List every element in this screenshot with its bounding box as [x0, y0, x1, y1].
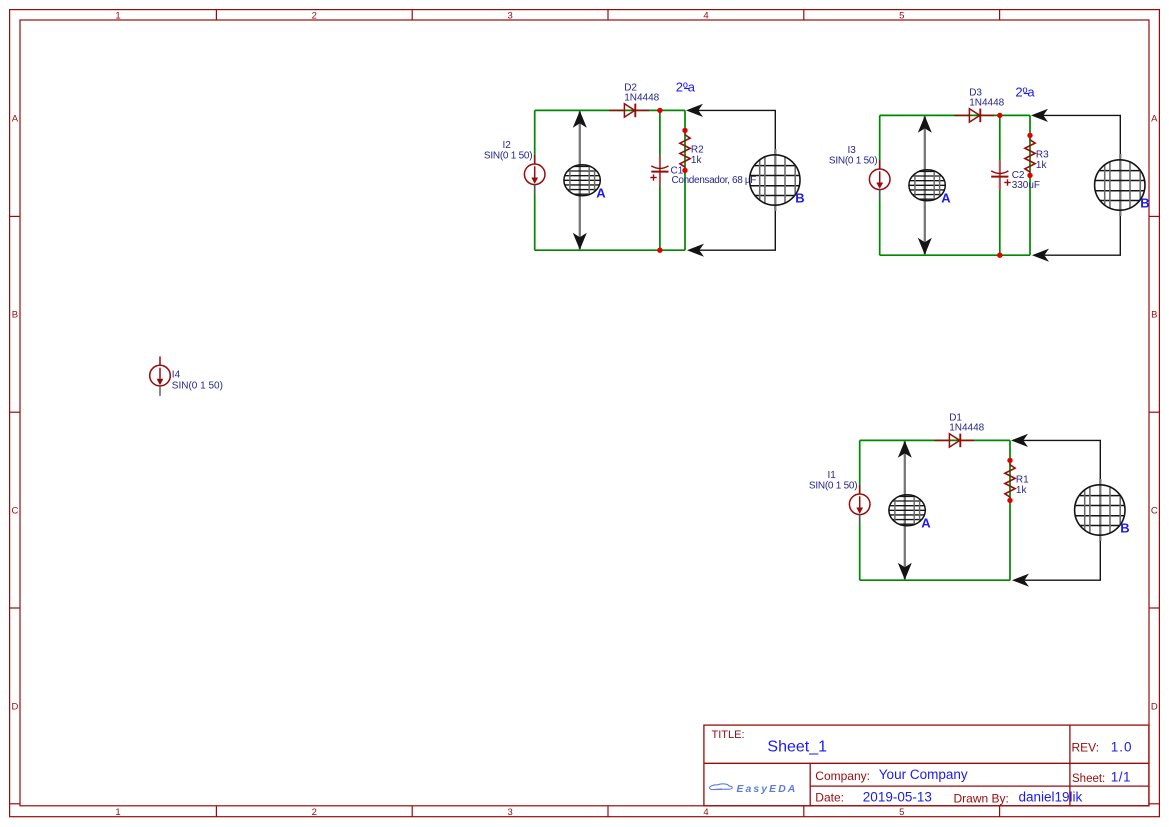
wire: [659, 110, 661, 250]
svg-text:2: 2: [312, 807, 317, 818]
junction dot c1 cap bottom: [657, 248, 662, 253]
capacitor C1: [659, 155, 661, 185]
wire: [880, 114, 1030, 116]
resistor R3 1k: [1029, 135, 1031, 139]
svg-text:5: 5: [899, 10, 904, 21]
svg-text:2ºa: 2ºa: [676, 79, 696, 94]
svg-text:3: 3: [507, 10, 512, 21]
svg-text:I1: I1: [827, 470, 836, 481]
wire: [535, 109, 685, 111]
wire: [534, 110, 536, 250]
probe c1B arrow top: [686, 104, 703, 117]
svg-text:A: A: [12, 113, 19, 124]
wire: [859, 440, 861, 580]
svg-text:REV:: REV:: [1072, 741, 1100, 755]
wire: [860, 579, 1010, 581]
diode D1 1N4448: [934, 434, 974, 448]
svg-text:1k: 1k: [1036, 160, 1048, 171]
svg-text:1.0: 1.0: [1111, 740, 1133, 755]
svg-text:A: A: [596, 186, 606, 201]
svg-text:1/1: 1/1: [1111, 770, 1131, 785]
svg-text:Date:: Date:: [815, 791, 844, 805]
svg-text:1N4448: 1N4448: [949, 423, 984, 434]
svg-text:SIN(0 1 50): SIN(0 1 50): [809, 481, 857, 492]
probe c2B wire loop: [1033, 115, 1120, 255]
current source I2: [524, 155, 545, 185]
junction dot c2 cap top: [997, 113, 1002, 118]
svg-text:TITLE:: TITLE:: [712, 729, 745, 741]
junction dot R3 pin1: [1027, 133, 1032, 138]
probe c1B stem: [774, 149, 776, 211]
probe c3A stem: [904, 441, 906, 579]
probe c2A arrow down: [918, 238, 932, 255]
svg-text:Your Company: Your Company: [879, 767, 968, 782]
svg-text:4: 4: [703, 10, 708, 21]
wire: [999, 115, 1001, 255]
current source I3: [869, 160, 890, 190]
probe c1A arrow down: [573, 233, 587, 250]
resistor R2 1k: [684, 130, 686, 134]
wire: [1029, 115, 1031, 255]
svg-text:I4: I4: [172, 369, 181, 380]
probe c2B stem: [1119, 154, 1121, 216]
probe c3B arrow bottom: [1012, 574, 1029, 587]
svg-text:EasyEDA: EasyEDA: [737, 784, 798, 795]
svg-text:Sheet:: Sheet:: [1072, 773, 1105, 785]
wire: [879, 115, 881, 255]
probe c3A body: [888, 494, 926, 526]
svg-text:2ºa: 2ºa: [1015, 84, 1035, 99]
capacitor C2: [999, 160, 1001, 190]
svg-text:Company:: Company:: [815, 769, 870, 783]
probe c1A stem: [579, 111, 581, 249]
svg-text:A: A: [921, 516, 931, 531]
column ticks top: [216, 10, 999, 20]
row ticks right: [1149, 216, 1159, 803]
svg-text:2: 2: [312, 10, 317, 21]
svg-text:Condensador, 68 µF: Condensador, 68 µF: [672, 175, 757, 186]
probe c2A body: [908, 169, 946, 201]
svg-text:Drawn By:: Drawn By:: [954, 791, 1009, 805]
wire: [684, 110, 686, 250]
svg-text:1k: 1k: [691, 155, 703, 166]
probe c1B body: [749, 154, 801, 206]
probe c3B body: [1074, 484, 1126, 536]
junction dot R2 pin2: [682, 168, 687, 173]
probe c1A arrow up: [573, 111, 587, 128]
svg-text:1k: 1k: [1016, 485, 1028, 496]
junction dot R1 pin2: [1007, 498, 1012, 503]
wire: [535, 249, 685, 251]
probe c1B arrow bottom: [687, 244, 704, 257]
plus mark C1: [650, 174, 656, 180]
svg-text:SIN(0 1 50): SIN(0 1 50): [484, 151, 532, 162]
row letters right: [1151, 113, 1158, 712]
probe c2B arrow bottom: [1032, 249, 1049, 262]
probe c1A body: [563, 164, 601, 196]
wire: [860, 439, 1010, 441]
probe c2A arrow up: [918, 116, 932, 133]
probe c3B stem: [1099, 479, 1101, 541]
probe c3B wire loop: [1013, 440, 1100, 580]
current source I1: [849, 485, 870, 514]
svg-text:B: B: [1120, 521, 1129, 536]
svg-text:4: 4: [703, 807, 708, 818]
junction dot R1 pin1: [1007, 458, 1012, 463]
probe c3A arrow down: [898, 563, 912, 580]
svg-text:C: C: [11, 506, 18, 517]
junction dot R2 pin1: [682, 128, 687, 133]
wire: [880, 254, 1030, 256]
probe c2A stem: [924, 116, 926, 254]
svg-text:1: 1: [115, 807, 120, 818]
svg-text:3: 3: [507, 807, 512, 818]
resistor R1 1k: [1009, 460, 1011, 464]
svg-text:B: B: [1151, 310, 1157, 321]
svg-text:5: 5: [899, 807, 904, 818]
svg-text:1N4448: 1N4448: [624, 93, 659, 104]
svg-text:D: D: [1151, 701, 1158, 712]
svg-text:330uF: 330uF: [1012, 180, 1040, 191]
svg-text:1N4448: 1N4448: [969, 98, 1004, 109]
svg-text:A: A: [1151, 113, 1158, 124]
junction dot c2 cap bottom: [997, 253, 1002, 258]
svg-text:1: 1: [115, 10, 120, 21]
svg-text:2019-05-13: 2019-05-13: [863, 789, 932, 804]
plus mark C2: [1004, 179, 1010, 185]
svg-text:B: B: [1140, 196, 1149, 211]
svg-text:D: D: [11, 701, 18, 712]
column numbers bottom: [115, 807, 904, 818]
probe c3A arrow up: [898, 441, 912, 458]
diode D2 1N4448: [609, 104, 649, 118]
svg-text:I3: I3: [847, 145, 856, 156]
probe c3B arrow top: [1011, 434, 1028, 447]
svg-text:B: B: [795, 191, 804, 206]
diode D3 1N4448: [954, 109, 994, 123]
row letters left: [11, 113, 18, 712]
row ticks left: [10, 216, 20, 803]
column ticks bottom: [216, 806, 999, 817]
svg-text:SIN(0 1 50): SIN(0 1 50): [829, 156, 877, 167]
junction dot R3 pin2: [1027, 173, 1032, 178]
svg-text:daniel19lik: daniel19lik: [1019, 790, 1083, 805]
probe c1B wire loop: [688, 110, 775, 250]
title block frame: [704, 725, 1149, 806]
svg-text:Sheet_1: Sheet_1: [767, 739, 827, 756]
svg-text:C: C: [1151, 506, 1158, 517]
current source I4: [150, 356, 171, 386]
probe c2B arrow top: [1031, 109, 1048, 122]
svg-text:A: A: [941, 191, 951, 206]
column numbers top: [115, 10, 904, 21]
probe c2B body: [1094, 159, 1146, 211]
svg-text:I2: I2: [502, 140, 511, 151]
junction dot c1 cap top: [657, 108, 662, 113]
svg-text:SIN(0 1 50): SIN(0 1 50): [172, 380, 223, 391]
wire: [1009, 440, 1011, 580]
svg-text:B: B: [12, 310, 18, 321]
easyeda logo: [709, 784, 797, 795]
